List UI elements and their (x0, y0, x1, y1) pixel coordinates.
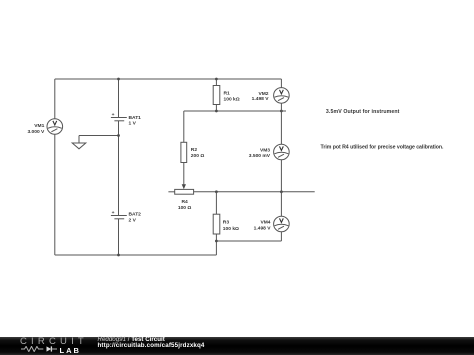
svg-text:VM4: VM4 (260, 219, 270, 225)
CircuitLab logo word (20, 336, 88, 347)
svg-text:100 kΩ: 100 kΩ (223, 226, 239, 232)
svg-text:BAT2: BAT2 (129, 212, 142, 218)
junction battery top (117, 78, 120, 81)
wire R1 top stub (215, 79, 217, 86)
junction ground tap (117, 134, 120, 137)
wire voltmeter column (280, 79, 282, 241)
wire R3 bottom line (216, 241, 281, 255)
svg-text:+: + (112, 113, 115, 118)
svg-text:Trim pot R4 utilised for preci: Trim pot R4 utilised for precise voltage… (321, 145, 445, 151)
svg-text:2 V: 2 V (129, 218, 137, 224)
junction VM2 bottom (280, 110, 283, 113)
svg-text:BAT1: BAT1 (129, 115, 142, 121)
svg-text:3.5mV Output for instrument: 3.5mV Output for instrument (326, 109, 400, 115)
svg-text:1.498 V: 1.498 V (254, 226, 272, 232)
wire output line node B (184, 110, 286, 112)
wire battery column lower (118, 219, 120, 255)
potentiometer R4 (175, 189, 194, 194)
wire bottom rail (55, 254, 217, 256)
battery BAT1 (111, 113, 127, 121)
voltmeter VM2 (274, 88, 290, 104)
svg-text:VM1: VM1 (34, 123, 44, 129)
svg-text:VM2: VM2 (258, 91, 268, 97)
junction VM3 bottom (280, 190, 283, 193)
svg-text:100 kΩ: 100 kΩ (224, 96, 240, 102)
wire R3 top stub (215, 192, 217, 214)
voltmeter VM1 (47, 119, 63, 135)
svg-text:1.498 V: 1.498 V (252, 96, 270, 102)
battery BAT2 (111, 211, 127, 219)
svg-text:R3: R3 (223, 219, 230, 225)
ground (72, 143, 86, 149)
svg-text:R2: R2 (191, 147, 198, 153)
svg-text:3.500 mV: 3.500 mV (249, 153, 271, 159)
voltmeter VM3 (274, 144, 290, 160)
wire ground tap (79, 136, 119, 144)
wire VM1 left branch (54, 79, 56, 255)
svg-text:VM3: VM3 (260, 147, 270, 153)
svg-text:R1: R1 (224, 91, 231, 97)
resistor R2 (181, 142, 187, 162)
wire R4 wiper arrow (182, 163, 186, 190)
junction R1 bottom (215, 110, 218, 113)
wire battery column middle (118, 121, 120, 216)
wire R4 output line node C (194, 191, 315, 193)
svg-text:R4: R4 (181, 199, 188, 205)
wire top rail node A (55, 78, 282, 80)
wire R3 bottom stub (215, 234, 217, 241)
footer title text (98, 336, 165, 343)
svg-text:1 V: 1 V (129, 121, 137, 127)
resistor R1 (213, 86, 220, 105)
junction battery bottom (117, 254, 120, 257)
junction R3 top (215, 190, 218, 193)
wire R1 bottom stub (215, 105, 217, 112)
wire R4 left stub (168, 191, 174, 193)
svg-text:100 Ω: 100 Ω (178, 205, 192, 211)
svg-text:200 Ω: 200 Ω (191, 153, 205, 159)
svg-text:+: + (112, 211, 115, 216)
wire R2 drop (183, 111, 185, 142)
voltmeter VM4 (274, 216, 290, 232)
footer bar (0, 337, 474, 355)
junction R3 bottom (215, 240, 218, 243)
CircuitLab logo symbol and LAB (21, 346, 91, 353)
svg-text:3.000 V: 3.000 V (27, 129, 45, 135)
junction R1 top (215, 78, 218, 81)
footer url text (98, 342, 205, 349)
wire battery column upper (118, 79, 120, 118)
resistor R3 (213, 214, 220, 234)
